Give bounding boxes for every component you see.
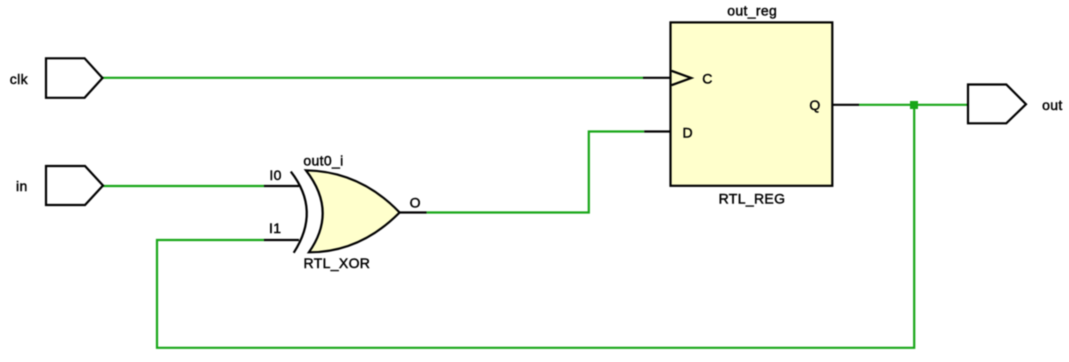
svg-text:out0_i: out0_i [303,152,343,168]
svg-text:I0: I0 [269,167,281,183]
svg-text:clk: clk [10,71,29,87]
svg-text:O: O [410,194,421,210]
svg-text:out_reg: out_reg [727,2,777,18]
svg-text:I1: I1 [269,220,281,236]
svg-text:RTL_XOR: RTL_XOR [304,255,371,271]
svg-text:in: in [16,178,28,194]
svg-text:RTL_REG: RTL_REG [719,191,786,207]
svg-text:Q: Q [809,97,820,113]
svg-text:out: out [1042,97,1063,113]
svg-text:D: D [683,124,693,140]
svg-text:C: C [702,70,712,86]
